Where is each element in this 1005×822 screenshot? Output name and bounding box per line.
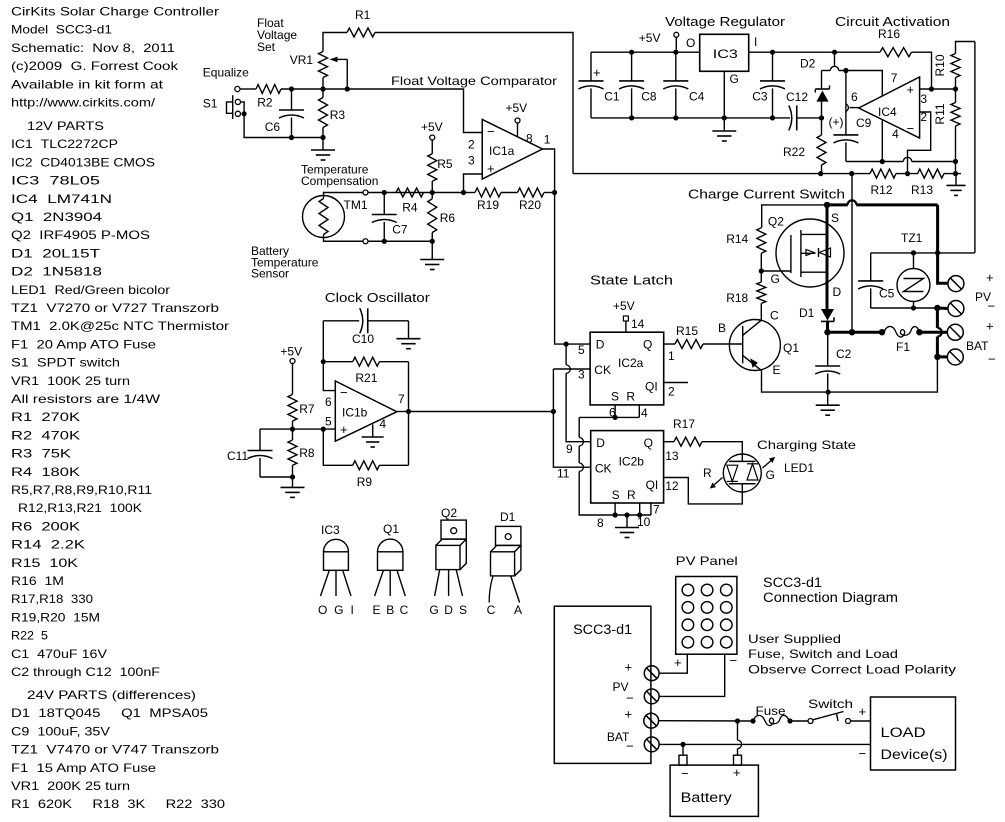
- SCC3 controller box: [554, 606, 651, 763]
- svg-text:C7: C7: [392, 223, 408, 237]
- svg-text:D: D: [833, 285, 842, 299]
- svg-text:LOAD: LOAD: [881, 725, 926, 740]
- capacitor C4: [663, 52, 704, 118]
- svg-text:+: +: [340, 422, 348, 437]
- svg-text:I: I: [754, 35, 757, 49]
- svg-text:−: −: [626, 691, 634, 706]
- fuse user: [753, 704, 790, 726]
- svg-text:Schematic: Nov 8, 2011: Schematic: Nov 8, 2011: [11, 41, 175, 55]
- wire IC4 pin6 output: [850, 107, 859, 109]
- svg-text:Float Voltage Comparator: Float Voltage Comparator: [391, 74, 557, 88]
- svg-text:−: −: [487, 124, 495, 139]
- svg-text:TZ1 V7470 or V747 Transzorb: TZ1 V7470 or V747 Transzorb: [11, 743, 219, 757]
- capacitor C7: [372, 193, 408, 242]
- resistor R20: [518, 188, 555, 212]
- flip-flop IC2b: [591, 431, 664, 503]
- wire bus R2 to IC1a pin2: [281, 89, 482, 133]
- resistor R13: [911, 169, 944, 197]
- svg-text:R15 10K: R15 10K: [11, 556, 78, 570]
- svg-text:LED1 Red/Green bicolor: LED1 Red/Green bicolor: [11, 283, 170, 297]
- resistor R17: [664, 417, 743, 454]
- svg-text:R17: R17: [673, 417, 695, 431]
- svg-text:SCC3-d1: SCC3-d1: [573, 622, 632, 637]
- svg-text:E: E: [372, 603, 380, 617]
- resistor R19: [464, 188, 518, 212]
- svg-text:S1: S1: [203, 97, 218, 111]
- wire SR tie down with hops: [579, 417, 651, 515]
- svg-text:Sensor: Sensor: [251, 267, 289, 281]
- svg-text:R4 180K: R4 180K: [11, 465, 80, 479]
- wire BAT+ to fuse: [659, 720, 753, 722]
- svg-text:C: C: [400, 603, 409, 617]
- svg-text:O: O: [318, 603, 327, 617]
- PV panel box with cells: [676, 577, 737, 655]
- svg-text:Compensation: Compensation: [301, 174, 378, 188]
- package IC3 TO-92: [318, 523, 354, 617]
- svg-text:6: 6: [851, 90, 858, 104]
- resistor R7: [288, 364, 315, 430]
- resistor R8: [288, 429, 315, 477]
- svg-text:IC3: IC3: [321, 523, 340, 537]
- svg-text:4: 4: [892, 127, 899, 141]
- svg-text:D1 20L15T: D1 20L15T: [11, 246, 101, 260]
- wire IC2a pin2 stub: [664, 382, 688, 384]
- svg-text:R22 5: R22 5: [11, 629, 48, 643]
- svg-text:IC1a: IC1a: [489, 144, 515, 158]
- svg-text:R11: R11: [933, 103, 947, 124]
- MOSFET Q2: [768, 214, 844, 287]
- transzorb TZ1: [897, 231, 930, 308]
- svg-text:+5V: +5V: [506, 101, 528, 115]
- label SCC3-d1 Connection Diagram: [763, 575, 898, 605]
- svg-text:F1 20 Amp ATO Fuse: F1 20 Amp ATO Fuse: [11, 337, 156, 351]
- +5V terminal IC1a pin8: [506, 101, 528, 137]
- svg-text:C: C: [770, 309, 779, 323]
- svg-text:6: 6: [325, 395, 332, 409]
- svg-text:+: +: [733, 765, 741, 780]
- svg-text:IC2 CD4013BE CMOS: IC2 CD4013BE CMOS: [11, 155, 155, 169]
- svg-text:13: 13: [665, 449, 679, 463]
- ground below R3: [311, 138, 335, 161]
- svg-text:R18: R18: [726, 291, 748, 305]
- svg-text:+: +: [625, 707, 633, 722]
- wire PV- to terminal thick: [937, 307, 947, 311]
- wire BAT+ line thick: [828, 331, 948, 334]
- svg-text:Charge Current Switch: Charge Current Switch: [688, 187, 845, 202]
- node PV- junction: [934, 305, 940, 311]
- svg-text:Charging State: Charging State: [757, 438, 856, 452]
- svg-text:E: E: [773, 363, 781, 377]
- svg-text:2: 2: [468, 138, 475, 152]
- svg-text:R9: R9: [357, 475, 373, 489]
- wire LED1 to IC2b pin12: [664, 478, 743, 504]
- pin labels IC4: [851, 71, 927, 141]
- svg-text:D1 18TQ045 Q1 MPSA05: D1 18TQ045 Q1 MPSA05: [11, 706, 208, 720]
- wire IC4 pin4 stub: [881, 120, 883, 162]
- wire IC4 pin2 feedback: [908, 112, 931, 174]
- wire C10 R21 left riser to pin6: [323, 321, 335, 391]
- flip-flop IC2a: [590, 332, 664, 405]
- wire IC4 pin3 to divider: [920, 88, 956, 90]
- wire switch to load: [851, 720, 871, 722]
- svg-text:CK: CK: [595, 462, 612, 476]
- svg-text:R: R: [703, 466, 712, 480]
- svg-text:8: 8: [526, 132, 533, 146]
- pin labels IC2b: [557, 442, 679, 530]
- svg-text:R6 200K: R6 200K: [11, 519, 80, 533]
- screw terminal BAT-: [947, 349, 963, 365]
- diode D1 power: [799, 306, 834, 332]
- capacitor C1 polarized: [579, 52, 620, 118]
- svg-text:C9: C9: [856, 116, 872, 130]
- wire bus equalize to comparator: [240, 88, 256, 90]
- svg-text:Voltage Regulator: Voltage Regulator: [665, 14, 786, 29]
- wire IC1a pin3 input: [464, 174, 483, 193]
- +5V terminal above R5: [421, 120, 443, 140]
- svg-text:+: +: [986, 319, 994, 334]
- wire Q2 source rail thin part: [762, 205, 827, 228]
- pin labels IC3 O I G: [686, 35, 757, 86]
- svg-text:+5V: +5V: [421, 120, 443, 134]
- svg-text:VR1: VR1: [290, 53, 314, 67]
- svg-text:D1: D1: [799, 306, 815, 320]
- svg-text:−: −: [859, 746, 867, 761]
- label User Supplied notes: [748, 632, 956, 677]
- svg-text:R2: R2: [257, 96, 273, 110]
- wire PV- line: [871, 307, 938, 309]
- svg-text:Q1 2N3904: Q1 2N3904: [11, 210, 102, 224]
- screw terminal PV+: [948, 276, 964, 292]
- wire clock line from oscillator: [409, 411, 554, 413]
- node ground rail junctions: [289, 135, 294, 140]
- svg-text:Available in kit form at: Available in kit form at: [11, 77, 164, 91]
- svg-text:G: G: [771, 272, 780, 286]
- svg-text:PV Panel: PV Panel: [676, 554, 738, 568]
- svg-text:R: R: [626, 390, 635, 404]
- resistor R22: [783, 118, 826, 174]
- svg-text:−: −: [730, 653, 738, 668]
- capacitor C2: [815, 332, 851, 392]
- svg-text:12V PARTS: 12V PARTS: [27, 119, 104, 133]
- diode D2: [800, 57, 830, 118]
- svg-text:+5V: +5V: [280, 345, 302, 359]
- svg-text:+: +: [986, 270, 994, 285]
- terminal labels PV BAT: [966, 270, 996, 367]
- +5V terminal at IC3 output: [639, 31, 679, 52]
- svg-text:3: 3: [468, 154, 475, 168]
- wire TM1 top to terminal: [324, 193, 364, 199]
- svg-text:R3 75K: R3 75K: [11, 447, 71, 461]
- svg-text:IC2a: IC2a: [618, 356, 644, 370]
- svg-text:Observe Correct Load Polarity: Observe Correct Load Polarity: [748, 663, 956, 677]
- svg-text:All resistors are 1/4W: All resistors are 1/4W: [11, 392, 161, 406]
- svg-text:CK: CK: [594, 363, 611, 377]
- svg-text:R8: R8: [299, 446, 315, 460]
- wire gate: [761, 270, 791, 272]
- wire Q2 source rail thick with hop: [827, 200, 948, 283]
- svg-text:IC2b: IC2b: [619, 455, 645, 469]
- +5V terminal latch pin14: [613, 299, 645, 332]
- svg-text:R19: R19: [477, 198, 499, 212]
- svg-text:I: I: [351, 603, 354, 617]
- resistor R6: [428, 193, 456, 242]
- svg-text:C10: C10: [352, 332, 374, 346]
- svg-text:F1: F1: [896, 340, 910, 354]
- resistor R1: [347, 8, 375, 37]
- svg-text:−: −: [681, 766, 689, 781]
- ground below R8: [281, 477, 305, 497]
- screw terminal BAT+: [947, 324, 963, 340]
- wire pin5 line: [260, 428, 335, 430]
- svg-text:(c)2009 G. Forrest Cook: (c)2009 G. Forrest Cook: [11, 59, 179, 73]
- resistor R11: [933, 78, 960, 174]
- svg-text:Switch: Switch: [808, 697, 853, 711]
- transistor Q1: [703, 320, 799, 371]
- svg-text:C3: C3: [752, 89, 768, 103]
- svg-text:R7: R7: [299, 402, 315, 416]
- svg-text:C4: C4: [689, 89, 705, 103]
- resistor R9: [323, 429, 408, 489]
- wire fuse to switch: [790, 720, 808, 722]
- svg-text:C2 through C12 100nF: C2 through C12 100nF: [11, 665, 160, 679]
- svg-text:R4: R4: [402, 201, 418, 215]
- wire clock to CK pins: [553, 369, 590, 467]
- svg-text:G: G: [334, 603, 343, 617]
- wire right sense line down to PV+: [974, 42, 976, 253]
- node D2 C12 R22: [819, 115, 824, 120]
- ground below C2: [816, 392, 840, 415]
- svg-text:R16: R16: [878, 27, 900, 41]
- capacitor C8: [619, 52, 657, 118]
- svg-text:SCC3-d1: SCC3-d1: [763, 575, 822, 590]
- svg-text:VR1 100K 25 turn: VR1 100K 25 turn: [11, 374, 130, 388]
- svg-text:VR1 200K 25 turn: VR1 200K 25 turn: [11, 779, 130, 793]
- svg-text:Q1: Q1: [383, 522, 399, 536]
- wire IC2a SR tie: [579, 405, 639, 420]
- svg-text:CirKits Solar Charge Controlle: CirKits Solar Charge Controller: [11, 5, 219, 19]
- screw terminal SCC3 PV+: [644, 666, 659, 681]
- svg-text:IC1b: IC1b: [342, 406, 368, 420]
- wire rail to D2 hop junction: [822, 52, 883, 96]
- capacitor C5: [858, 253, 894, 308]
- wire ground net from BAT-: [828, 357, 937, 392]
- wire S1 middle to bottom contact: [241, 102, 245, 114]
- svg-text:C5: C5: [879, 287, 895, 301]
- svg-text:R3: R3: [330, 108, 346, 122]
- svg-text:G: G: [766, 468, 775, 482]
- wire +5V rail top: [591, 51, 700, 53]
- svg-text:R1 620K R18 3K R22: R1 620K R18 3K R22 330: [11, 797, 225, 811]
- svg-text:D2 1N5818: D2 1N5818: [11, 265, 102, 279]
- svg-text:8: 8: [597, 516, 604, 530]
- svg-text:Battery: Battery: [681, 790, 732, 805]
- op-amp IC1a: [482, 120, 542, 180]
- svg-text:B: B: [386, 603, 394, 617]
- svg-text:D: D: [444, 603, 453, 617]
- svg-text:−: −: [988, 299, 996, 314]
- resistor R3: [319, 89, 346, 138]
- screw terminal SCC3 BAT-: [644, 737, 659, 752]
- switch user: [808, 697, 853, 724]
- svg-text:7: 7: [653, 503, 660, 517]
- svg-text:7: 7: [398, 392, 405, 406]
- ground below IC2b: [615, 515, 639, 538]
- svg-text:QΙ: QΙ: [645, 380, 658, 394]
- thermistor TM1: [303, 196, 368, 238]
- svg-text:−: −: [907, 121, 915, 136]
- ground below IC3: [712, 118, 736, 141]
- capacitor C6: [265, 89, 304, 138]
- section label Float Voltage Set: [257, 16, 297, 54]
- svg-text:Connection Diagram: Connection Diagram: [763, 590, 898, 605]
- svg-text:R2 470K: R2 470K: [11, 428, 80, 442]
- wire PV- to panel: [659, 654, 725, 696]
- screw terminal SCC3 BAT+: [644, 713, 659, 728]
- resistor R15: [664, 324, 703, 349]
- svg-text:Q2 IRF4905 P-MOS: Q2 IRF4905 P-MOS: [11, 228, 150, 242]
- wire IC2b S R pins to ground rail: [613, 503, 651, 518]
- svg-text:R1: R1: [355, 8, 371, 22]
- wire PV+ sense line: [871, 252, 975, 254]
- svg-text:O: O: [686, 36, 695, 50]
- wire TM1 bottom to terminal: [324, 235, 364, 242]
- ground after R13: [947, 174, 966, 196]
- svg-text:BAT: BAT: [966, 339, 989, 353]
- svg-text:−: −: [988, 352, 996, 367]
- wire IC1a output down to state latch D: [543, 149, 591, 344]
- wire R12 R13 link: [896, 173, 918, 175]
- battery: [670, 755, 758, 816]
- capacitor C12 series: [786, 90, 822, 130]
- svg-text:R6: R6: [440, 211, 456, 225]
- wire battery - riser: [682, 744, 684, 755]
- wire IC1b output: [397, 411, 409, 413]
- node bus junctions: [289, 86, 294, 91]
- svg-text:IC4 LM741N: IC4 LM741N: [11, 192, 112, 206]
- svg-text:Model SCC3-d1: Model SCC3-d1: [11, 23, 112, 37]
- package Q2 TO-220: [429, 506, 467, 617]
- title block text: [11, 5, 219, 110]
- svg-text:http://www.cirkits.com/: http://www.cirkits.com/: [11, 96, 156, 110]
- labels PV panel polarity: [674, 653, 737, 670]
- svg-text:+: +: [674, 655, 682, 670]
- ground IC1b pin4: [362, 425, 384, 448]
- svg-text:R14: R14: [726, 232, 748, 246]
- svg-text:12: 12: [665, 479, 679, 493]
- svg-text:C6: C6: [265, 120, 281, 134]
- svg-text:C: C: [487, 603, 496, 617]
- package D1 TO-220: [487, 510, 522, 617]
- parts list 12V: [11, 119, 229, 679]
- wire emitter to ground rail: [762, 371, 829, 393]
- svg-text:+: +: [859, 704, 867, 719]
- svg-text:F1 15 Amp ATO Fuse: F1 15 Amp ATO Fuse: [11, 761, 156, 775]
- svg-text:S: S: [459, 603, 467, 617]
- wire C9 bottom line to divider: [846, 157, 956, 161]
- svg-text:3: 3: [920, 92, 927, 106]
- ground below R6: [420, 241, 444, 269]
- wire R21 right riser: [408, 362, 410, 466]
- svg-text:R13: R13: [911, 183, 933, 197]
- svg-text:14: 14: [631, 317, 645, 331]
- svg-text:1: 1: [668, 349, 675, 363]
- svg-text:+: +: [907, 82, 915, 97]
- svg-text:User Supplied: User Supplied: [748, 632, 841, 646]
- wire PV+ to panel: [659, 654, 687, 673]
- svg-text:TZ1: TZ1: [901, 231, 923, 245]
- capacitor C9 polarized with riser: [829, 71, 872, 162]
- ground right of C10: [397, 321, 421, 349]
- svg-text:+5V: +5V: [639, 31, 661, 45]
- svg-text:Set: Set: [257, 40, 276, 54]
- svg-text:24V PARTS (differences): 24V PARTS (differences): [27, 688, 196, 702]
- op-amp IC4 pointing left: [859, 77, 920, 138]
- LED1 bicolor: [703, 454, 814, 492]
- svg-text:S: S: [831, 211, 839, 225]
- svg-text:S1 SPDT switch: S1 SPDT switch: [11, 356, 120, 370]
- wire TM1 top node line: [368, 192, 464, 194]
- svg-text:State Latch: State Latch: [590, 273, 673, 288]
- resistor R16: [835, 27, 932, 89]
- wire R1 left to VR1 top: [323, 33, 347, 52]
- wire R13 to ground: [944, 173, 961, 175]
- resistor R14: [726, 228, 766, 271]
- resistor R5: [428, 140, 453, 193]
- regulator IC3: [700, 34, 749, 71]
- svg-text:7: 7: [891, 71, 898, 85]
- svg-text:5: 5: [578, 343, 585, 357]
- svg-text:+: +: [487, 161, 495, 176]
- svg-text:TZ1 V7270 or V727 Transzorb: TZ1 V7270 or V727 Transzorb: [11, 301, 219, 315]
- pin labels IC1a: [468, 132, 551, 168]
- svg-text:R12,R13,R21 100K: R12,R13,R21 100K: [18, 501, 142, 515]
- pin labels IC2a: [578, 343, 675, 420]
- svg-text:4: 4: [641, 406, 648, 420]
- LOAD box: [871, 697, 956, 770]
- svg-text:C1: C1: [604, 89, 620, 103]
- resistor R18: [726, 271, 766, 320]
- svg-text:R5,R7,R8,R9,R10,R11: R5,R7,R8,R9,R10,R11: [11, 483, 152, 497]
- svg-text:9: 9: [566, 442, 573, 456]
- wire divider output line: [573, 173, 870, 175]
- svg-text:TM1 2.0K@25c NTC Thermistor: TM1 2.0K@25c NTC Thermistor: [11, 319, 229, 333]
- svg-text:B: B: [718, 321, 726, 335]
- wire comparator signal hop over CK: [566, 344, 591, 442]
- svg-text:G: G: [429, 603, 438, 617]
- svg-text:(+): (+): [829, 115, 844, 129]
- svg-text:IC3: IC3: [713, 47, 738, 61]
- svg-text:+: +: [625, 660, 633, 675]
- svg-text:R22: R22: [783, 145, 805, 159]
- wire TM1 bottom node line: [368, 240, 432, 242]
- svg-text:R17,R18 330: R17,R18 330: [11, 592, 93, 606]
- wire BAT- stub thick: [937, 355, 947, 358]
- svg-text:R5: R5: [437, 157, 453, 171]
- svg-text:5: 5: [325, 415, 332, 429]
- svg-text:D: D: [596, 436, 605, 450]
- svg-text:Q2: Q2: [441, 506, 457, 520]
- svg-text:+5V: +5V: [613, 299, 635, 313]
- svg-text:IC4: IC4: [878, 105, 897, 119]
- wire BAT- to load: [659, 743, 870, 745]
- node gate R14 R18: [759, 268, 764, 273]
- svg-text:R19,R20 15M: R19,R20 15M: [11, 610, 100, 624]
- switch S1: [203, 86, 241, 119]
- svg-text:−: −: [626, 739, 634, 754]
- svg-text:C12: C12: [786, 90, 808, 104]
- pin labels Q1 B C E: [718, 309, 781, 378]
- capacitor C11: [227, 429, 293, 477]
